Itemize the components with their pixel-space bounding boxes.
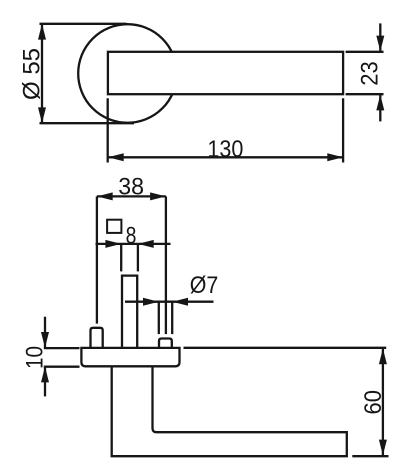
dimension 23 text xyxy=(357,61,384,86)
lever bar (top view) xyxy=(108,52,343,94)
dimension 60 extension line bottom xyxy=(352,455,388,457)
dimension Ø55 line xyxy=(41,24,43,123)
dimension Ø55 text xyxy=(19,48,46,100)
rose circle (top view, Ø55) xyxy=(78,24,177,123)
dimension 23 line upper xyxy=(379,23,381,50)
dimension 38 arrow right xyxy=(150,192,166,200)
svg-text:23: 23 xyxy=(357,61,384,86)
dimension 130 extension line right xyxy=(342,98,344,162)
dimension 38 line xyxy=(97,195,166,197)
screw post right xyxy=(159,339,172,349)
rose plate (side view) xyxy=(81,348,179,366)
screw hole line right xyxy=(171,302,173,334)
svg-text:8: 8 xyxy=(126,223,137,250)
dimension 38 arrow left xyxy=(97,192,113,200)
svg-text:Ø7: Ø7 xyxy=(190,272,219,299)
dimension 8 line xyxy=(96,243,171,245)
dimension 60 line xyxy=(382,348,384,455)
dimension 130 arrow right xyxy=(327,153,343,161)
dimension Ø55 arrow down xyxy=(38,107,46,123)
spindle square bar xyxy=(122,276,137,348)
dimension Ø7 line xyxy=(125,301,214,303)
dimension 10 line upper xyxy=(44,317,46,348)
dimension 38 extension line left xyxy=(96,196,98,323)
svg-text:10: 10 xyxy=(21,346,48,369)
dimension 130 text xyxy=(207,136,243,163)
dimension 10 extension line bottom xyxy=(44,366,80,368)
svg-text:Ø 55: Ø 55 xyxy=(19,48,46,100)
dimension 8 arrow left xyxy=(105,240,121,248)
svg-text:60: 60 xyxy=(360,390,387,415)
dimension 8 arrow right xyxy=(138,240,154,248)
dimension 8 text xyxy=(126,223,137,250)
spindle extension stub left xyxy=(120,245,122,272)
dimension 23 arrow up xyxy=(376,95,384,111)
dimension 130 line xyxy=(108,156,343,158)
dimension 60 arrow up xyxy=(379,348,387,364)
dimension 38 text xyxy=(118,173,144,200)
spindle extension stub right xyxy=(137,245,139,272)
screw centerline right xyxy=(165,196,167,334)
square spindle symbol xyxy=(107,220,121,233)
dimension 10 line lower xyxy=(44,367,46,396)
dimension 130 extension line left xyxy=(107,98,109,162)
dimension 23 extension line bottom xyxy=(346,93,384,95)
dimension 60 arrow down xyxy=(379,440,387,456)
dimension 10 arrow up xyxy=(41,367,49,383)
dimension 130 arrow left xyxy=(108,153,124,161)
screw hole line left xyxy=(158,302,160,334)
handle neck and grip (side view) xyxy=(112,366,347,456)
svg-text:130: 130 xyxy=(207,136,243,163)
dimension 10 extension line top xyxy=(44,347,80,349)
dimension Ø7 arrow right xyxy=(172,298,188,306)
dimension 23 arrow down xyxy=(376,36,384,52)
dimension Ø55 extension line top xyxy=(40,23,127,25)
dimension Ø7 arrow left xyxy=(143,298,159,306)
door surface line xyxy=(184,347,387,349)
dimension 60 text xyxy=(360,390,387,415)
dimension 10 text xyxy=(21,346,48,369)
dimension 23 extension line top xyxy=(346,51,384,53)
dimension Ø7 text xyxy=(190,272,219,299)
screw post left xyxy=(91,328,103,349)
dimension Ø55 extension line bottom xyxy=(40,122,135,124)
svg-text:38: 38 xyxy=(118,173,144,200)
dimension 23 line lower xyxy=(379,95,381,122)
dimension Ø55 arrow up xyxy=(38,24,46,40)
dimension 10 arrow down xyxy=(41,332,49,348)
